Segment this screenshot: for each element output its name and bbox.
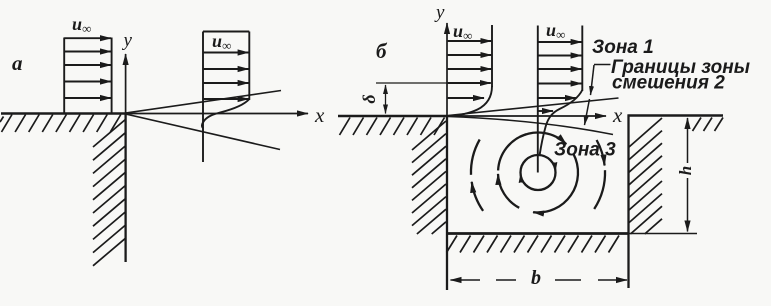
svg-text:Зона 3: Зона 3 — [554, 140, 616, 161]
svg-text:u∞: u∞ — [212, 31, 231, 53]
vortex outer arc right (lower) — [594, 170, 605, 209]
svg-text:x: x — [612, 103, 623, 127]
ground hatching left (part b) — [340, 118, 445, 136]
svg-text:y: y — [434, 2, 445, 23]
svg-text:u∞: u∞ — [453, 21, 472, 43]
cavity bottom — [446, 232, 629, 235]
ground line left (part b) — [338, 115, 447, 118]
cavity bottom extension (h dimension tick) — [629, 233, 698, 235]
ground hatching right (part b) — [693, 118, 724, 132]
vortex middle circle arc (left, lower) — [498, 174, 519, 208]
step wall below origin (part a) — [124, 113, 126, 262]
vortex outer arc right (upper) — [597, 140, 605, 166]
mixing-layer velocity profile 2 (part a) — [202, 32, 249, 163]
svg-text:смешения 2: смешения 2 — [612, 73, 725, 94]
ground line right (part b) — [628, 114, 724, 117]
y-axis (part a) — [122, 30, 133, 114]
svg-text:u∞: u∞ — [72, 14, 91, 36]
h dimension arrow — [687, 118, 689, 232]
boundary layer curve (profile 1, part b) — [448, 86, 493, 116]
right wall hatching (part b) — [629, 118, 662, 234]
vortex inner circle (zone 3) — [521, 155, 556, 190]
svg-text:Зона 1: Зона 1 — [592, 37, 654, 58]
reverse-flow S-curve (profile 2, part a) — [202, 99, 249, 129]
svg-text:x: x — [314, 103, 325, 127]
inner circle arrowheads — [521, 174, 523, 182]
lower mixing-zone boundary (part b) — [448, 117, 613, 135]
svg-text:b: b — [531, 267, 541, 289]
svg-text:б: б — [376, 39, 388, 63]
svg-text:δ: δ — [359, 94, 379, 103]
b dimension line (dashed with arrows) — [451, 279, 628, 281]
left wall hatching (part b) — [412, 121, 446, 234]
vortex middle circle arc (right-bottom) — [533, 154, 578, 213]
svg-text:y: y — [122, 30, 133, 51]
x-axis (part b) — [447, 103, 623, 127]
svg-text:h: h — [676, 166, 695, 175]
bottom hatching (part b) — [447, 236, 620, 253]
wall hatching (part a) — [93, 119, 126, 266]
ground hatching (part a) — [0, 115, 121, 133]
svg-text:а: а — [12, 51, 23, 75]
upper mixing-zone boundary (part a) — [126, 91, 281, 114]
delta dimension tick line — [376, 82, 447, 84]
cavity left wall — [446, 115, 448, 290]
svg-text:u∞: u∞ — [546, 20, 565, 42]
x-axis (part a) — [126, 103, 325, 127]
upper mixing-zone boundary (part b) — [448, 98, 619, 116]
y-axis (part b) — [434, 2, 447, 116]
delta dimension arrow — [385, 85, 387, 114]
vortex outer arc left (upper) — [471, 140, 480, 175]
vortex middle circle arc (top) — [471, 133, 605, 213]
cavity right wall — [627, 115, 629, 289]
reverse-flow S-curve into cavity (profile 2, part b) — [540, 90, 583, 155]
mixing-layer velocity profile 2 (part b) — [538, 26, 583, 173]
leader line for boundaries label — [585, 65, 611, 126]
boundary-layer velocity profile 1 (part b) — [448, 25, 493, 116]
lower mixing-zone boundary (part a) — [126, 114, 280, 150]
vortex middle circle arc (left, upper) — [498, 134, 526, 170]
ground line (part a) — [1, 112, 127, 115]
uniform velocity profile 1 (part a) — [64, 38, 111, 114]
vortex outer arc left (lower) — [472, 182, 483, 211]
